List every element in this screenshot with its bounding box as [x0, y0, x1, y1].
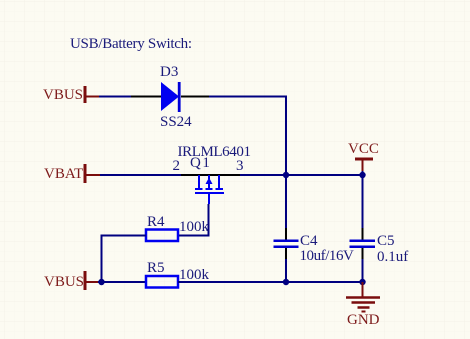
wire: [99, 96, 131, 98]
diode D3: [161, 82, 181, 112]
svg-text:VBUS: VBUS: [44, 274, 84, 290]
svg-text:SS24: SS24: [160, 114, 192, 130]
svg-text:USB/Battery Switch:: USB/Battery Switch:: [70, 36, 192, 52]
svg-text:100k: 100k: [179, 267, 210, 283]
svg-text:R5: R5: [147, 260, 165, 276]
diode D3 pin 1: [131, 96, 161, 98]
svg-text:2: 2: [173, 158, 181, 174]
capacitor C5 pin 2: [362, 247, 364, 259]
resistor R4: [146, 230, 178, 242]
wire (gate): [178, 204, 209, 236]
svg-text:VBUS: VBUS: [43, 87, 83, 103]
port VBUS (bottom): [44, 271, 98, 290]
port VBAT: [44, 164, 100, 183]
junction: [283, 279, 289, 285]
resistor R5: [146, 276, 178, 288]
transistor Q1: [195, 175, 224, 204]
junction: [283, 172, 289, 178]
wire: [362, 171, 364, 176]
wire: [178, 281, 363, 283]
svg-text:R4: R4: [147, 214, 165, 230]
port VBUS (top): [43, 86, 99, 103]
svg-text:C4: C4: [300, 233, 318, 249]
capacitor C4 pin 1: [285, 228, 287, 240]
wire: [102, 236, 147, 283]
wire: [100, 174, 181, 176]
svg-text:VCC: VCC: [348, 141, 379, 157]
wire: [240, 174, 363, 176]
junction: [359, 172, 365, 178]
junction: [359, 279, 365, 285]
svg-text:GND: GND: [347, 312, 380, 328]
ground GND: [346, 282, 380, 328]
wire: [362, 259, 364, 282]
capacitor C4: [274, 240, 299, 249]
svg-text:C5: C5: [377, 233, 395, 249]
svg-text:0.1uf: 0.1uf: [377, 249, 408, 265]
power port VCC: [348, 141, 379, 171]
transistor Q1 pins 2,3: [181, 174, 240, 176]
wire (vertical from diode): [285, 174, 287, 228]
diode D3 pin 2: [181, 96, 209, 98]
wire (vertical to C5): [362, 175, 364, 228]
svg-text:100k: 100k: [179, 219, 210, 235]
capacitor C5: [350, 240, 376, 249]
svg-text:3: 3: [236, 158, 244, 174]
capacitor C5 pin 1: [362, 228, 364, 240]
junction: [98, 279, 104, 285]
svg-text:D3: D3: [160, 64, 178, 80]
svg-text:VBAT: VBAT: [44, 166, 83, 182]
wire: [285, 259, 287, 282]
capacitor C4 pin 2: [285, 247, 287, 259]
wire: [209, 97, 286, 176]
svg-text:10uf/16V: 10uf/16V: [300, 248, 355, 264]
svg-text:Q1: Q1: [190, 155, 211, 171]
wire: [98, 281, 146, 283]
